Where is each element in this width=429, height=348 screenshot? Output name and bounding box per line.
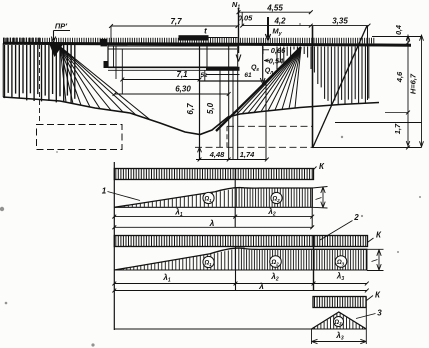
ground curve line — [3, 97, 379, 135]
row3 K label with leader — [367, 296, 374, 301]
girder end vertical — [113, 46, 115, 67]
embankment toe line right — [335, 122, 422, 124]
row1 K label with leader — [313, 167, 316, 170]
abutment shaft vertical — [219, 70, 221, 148]
label 0,66 with tick — [262, 47, 264, 55]
girder left end — [107, 44, 109, 68]
dimension 6,30 — [115, 93, 229, 95]
svg-text:λ: λ — [258, 281, 264, 291]
girder step vertical b — [121, 49, 123, 94]
girder soffit second line — [108, 69, 206, 71]
right slope fan — [236, 47, 301, 115]
row2 influence hatch — [116, 247, 366, 270]
row3 lambda3 dimension line — [312, 341, 367, 343]
row2 height dimension with arrows — [367, 248, 384, 250]
abutment rear vertical — [265, 82, 267, 160]
dimension 4,2 — [242, 25, 311, 27]
dimension vertical 5,0 line — [212, 94, 214, 147]
row2 influence baseline — [114, 269, 366, 271]
row1 divider lambda1/lambda2 — [234, 169, 236, 228]
buried outline dashed lower — [195, 146, 313, 148]
row3 triangle hatch — [315, 313, 363, 328]
svg-text:ПР′: ПР′ — [55, 22, 68, 31]
svg-text:3,35: 3,35 — [332, 17, 348, 26]
abutment front face vertical — [199, 44, 201, 160]
svg-text:5,0: 5,0 — [206, 102, 215, 114]
dimension 7,7 — [111, 25, 238, 27]
left embankment slope fan — [60, 47, 150, 120]
row2 divider lambda1/lambda2 — [235, 247, 237, 291]
row1 right end vertical — [311, 188, 313, 227]
dimension line 4,48 1,74 — [196, 159, 267, 161]
svg-text:Ω3: Ω3 — [333, 320, 342, 326]
main left vertical of influence diagrams — [113, 162, 115, 330]
abutment cap line — [200, 80, 267, 82]
row2 load strip K band — [114, 236, 367, 247]
row1 load strip K band — [114, 169, 313, 180]
label 0,54 with arrow — [264, 60, 269, 62]
svg-text:0,05: 0,05 — [238, 14, 253, 23]
right foundation vertical — [312, 26, 314, 148]
roadway surface tick hatching — [4, 38, 374, 44]
bold slope diagonal — [216, 47, 301, 131]
row3 left vertical — [311, 329, 313, 344]
row1 influence line profile — [114, 188, 312, 208]
row3 long baseline — [114, 328, 366, 330]
abutment face second vertical — [206, 44, 208, 68]
svg-text:2: 2 — [353, 213, 359, 222]
foundation bottom right — [313, 147, 422, 149]
moment My arrow — [267, 17, 269, 38]
row1 omega2 circle — [271, 192, 282, 203]
svg-text:61: 61 — [244, 72, 252, 79]
svg-text:0,54: 0,54 — [269, 57, 284, 66]
row1 lambda segment dimension line — [114, 216, 312, 218]
row2 divider lambda2/lambda3 bold — [313, 236, 315, 291]
svg-text:3: 3 — [377, 309, 382, 318]
offset line 0,05 — [241, 12, 243, 26]
row2 omega3 circle — [335, 256, 347, 268]
bearing pedestal vertical — [232, 71, 234, 160]
row3 load strip K band — [313, 297, 366, 308]
dimension 4,55 — [239, 11, 311, 13]
svg-text:4,55: 4,55 — [266, 4, 283, 13]
row2 influence line profile — [114, 248, 366, 270]
girder step vertical a — [115, 46, 117, 79]
svg-text:4,2: 4,2 — [273, 17, 286, 26]
3,35 end vertical — [367, 26, 369, 100]
row1 influence hatch — [116, 187, 310, 207]
force Q vertical with arrow — [262, 44, 264, 81]
bearing pad — [206, 67, 240, 71]
svg-text:1: 1 — [102, 187, 107, 196]
svg-text:6,30: 6,30 — [175, 85, 191, 94]
thin slope diagonal right — [313, 26, 367, 148]
row3 right vertical — [365, 297, 367, 345]
row3 omega3 circle — [334, 317, 344, 327]
row3 triangle influence line — [312, 312, 367, 329]
approach slab line — [209, 37, 238, 39]
buried outline dashed vertical — [226, 126, 228, 147]
girder top lines — [108, 45, 237, 47]
left embankment hatch block — [5, 45, 75, 104]
dimension 3,35 — [311, 25, 369, 27]
row2 omega1 circle — [203, 256, 214, 267]
row1 omega1 circle — [203, 192, 214, 203]
load mark t — [179, 35, 209, 40]
row2 lambda total dimension line — [114, 290, 366, 292]
foundation dashed rectangle left — [37, 125, 123, 150]
svg-text:λ: λ — [209, 218, 215, 228]
svg-text:t: t — [204, 27, 207, 36]
right dimension line outer H — [421, 35, 423, 148]
deck end dark block — [101, 39, 108, 47]
girder bottom line — [108, 66, 237, 68]
svg-text:4,6: 4,6 — [395, 71, 404, 83]
dimension 7,1 — [122, 79, 199, 81]
right embankment hatch block — [277, 47, 369, 105]
svg-text:6,7: 6,7 — [186, 103, 195, 115]
svg-text:7,7: 7,7 — [170, 17, 182, 26]
abutment back wall vertical — [228, 44, 230, 160]
row1 height dimension with arrows — [312, 187, 327, 189]
row2 lambda segment dimension line — [114, 283, 366, 285]
svg-text:0,4: 0,4 — [396, 25, 403, 35]
row1 lambda total dimension line — [114, 226, 312, 228]
left edge vertical — [2, 43, 4, 97]
svg-text:1,7: 1,7 — [393, 123, 402, 134]
fan origin dark wedge — [50, 45, 64, 58]
row2 omega2 circle — [270, 256, 282, 268]
svg-text:7,1: 7,1 — [176, 70, 188, 79]
PR' axis dashed vertical — [39, 44, 41, 125]
right dimension line inner — [407, 35, 409, 148]
svg-text:1,74: 1,74 — [240, 150, 255, 159]
svg-text:4,48: 4,48 — [209, 150, 225, 159]
svg-text:Н=6,7: Н=6,7 — [409, 73, 418, 94]
PR' arrow and label — [53, 31, 55, 41]
scan specks — [0, 207, 4, 211]
buried outline dashed upper — [227, 125, 312, 127]
row1 influence baseline — [114, 206, 312, 208]
roadway surface line — [3, 43, 411, 45]
row2 K label with leader — [367, 238, 373, 243]
abutment footing verticals — [199, 147, 201, 159]
rail level step right — [372, 36, 422, 38]
5g vertical line — [204, 71, 206, 82]
bearing axis vertical — [237, 44, 239, 160]
left chunky tick overlay — [4, 38, 39, 44]
